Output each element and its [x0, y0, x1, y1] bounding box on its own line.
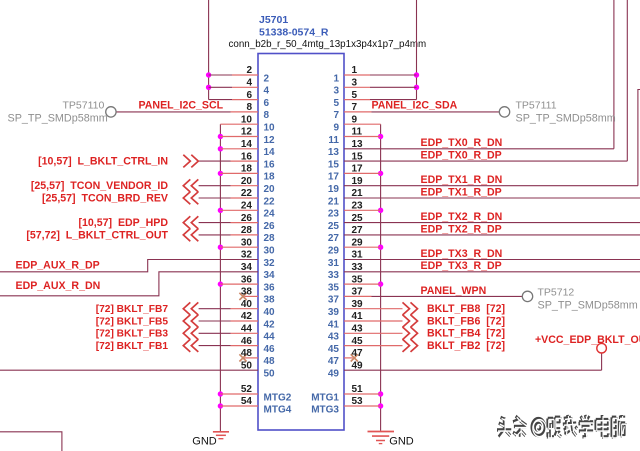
junction dot pin 11 on right GND bus [378, 134, 383, 139]
svg-text:43: 43 [352, 324, 364, 335]
svg-text:TP57110: TP57110 [63, 100, 105, 112]
pin 47 right stub and numbers [344, 357, 353, 359]
svg-text:49: 49 [352, 360, 364, 371]
svg-text:30: 30 [241, 237, 253, 248]
svg-text:MTG1: MTG1 [311, 392, 339, 403]
svg-text:34: 34 [264, 270, 276, 281]
svg-text:EDP_AUX_R_DP: EDP_AUX_R_DP [16, 259, 100, 271]
svg-text:25: 25 [328, 221, 340, 232]
svg-text:[57,72] L_BKLT_CTRL_OUT: [57,72] L_BKLT_CTRL_OUT [26, 229, 168, 241]
junction dot pin 53 on right GND bus [378, 403, 383, 408]
svg-text:47: 47 [352, 348, 364, 359]
pin 50 left stub and numbers [0, 369, 258, 371]
svg-text:PANEL_I2C_SDA: PANEL_I2C_SDA [372, 100, 458, 112]
pin 42 left stub and numbers [199, 320, 231, 322]
svg-text:19: 19 [352, 176, 364, 187]
svg-text:4: 4 [264, 86, 270, 97]
svg-text:[25,57] TCON_BRD_REV: [25,57] TCON_BRD_REV [42, 192, 168, 204]
pin 39 right stub and numbers [344, 308, 403, 310]
pin 4 left stub and numbers [209, 86, 232, 88]
svg-text:SP_TP_SMDp58mm: SP_TP_SMDp58mm [516, 113, 616, 125]
pin 52 left stub and numbers [220, 393, 258, 395]
junction dot pin 30 on left GND bus [218, 245, 223, 250]
pin 41 right stub and numbers [344, 320, 403, 322]
svg-text:3: 3 [333, 86, 339, 97]
svg-text:40: 40 [264, 307, 276, 318]
svg-text:6: 6 [246, 90, 252, 101]
off-page arrow into pin 16 [183, 155, 190, 168]
pin 19 right stub and numbers [344, 185, 638, 187]
wire EDP_TX1_R_DN vertical and exit right [638, 90, 640, 186]
svg-text:27: 27 [352, 225, 364, 236]
svg-text:17: 17 [352, 164, 364, 175]
svg-text:1: 1 [333, 73, 339, 84]
off-page arrow out of pin 39 [403, 302, 410, 315]
svg-text:24: 24 [241, 201, 253, 212]
svg-text:42: 42 [264, 319, 276, 330]
junction dot pin 2 net [206, 72, 211, 77]
svg-text:29: 29 [352, 237, 364, 248]
svg-text:9: 9 [333, 123, 339, 134]
junction dot pin 29 on right GND bus [378, 245, 383, 250]
svg-text:PANEL_WPN: PANEL_WPN [421, 285, 487, 297]
pin 28 left stub and numbers [199, 234, 231, 236]
svg-text:PANEL_I2C_SCL: PANEL_I2C_SCL [139, 100, 224, 112]
svg-text:GND: GND [389, 435, 414, 447]
svg-text:BKLT_FB4 [72]: BKLT_FB4 [72] [427, 328, 505, 340]
svg-text:30: 30 [264, 246, 276, 257]
svg-text:17: 17 [328, 172, 340, 183]
svg-text:43: 43 [328, 332, 340, 343]
pin 38 left stub and numbers [245, 295, 259, 297]
pin 17 right stub and numbers [344, 172, 381, 174]
svg-text:48: 48 [264, 356, 276, 367]
test point TP57110 circle [106, 107, 116, 117]
svg-text:32: 32 [241, 250, 253, 261]
svg-text:EDP_TX0_R_DP: EDP_TX0_R_DP [421, 150, 502, 162]
svg-text:10: 10 [264, 123, 276, 134]
junction dot pin 54 on left GND bus [218, 403, 223, 408]
off-page arrow out of pin 43 [403, 327, 410, 340]
svg-text:16: 16 [241, 151, 253, 162]
pin 40 left stub and numbers [199, 308, 231, 310]
pin 43 right stub and numbers [344, 332, 403, 334]
pin 49 right stub and numbers [344, 369, 602, 371]
svg-text:EDP_TX2_R_DP: EDP_TX2_R_DP [421, 223, 502, 235]
test point TP57111 circle [499, 107, 509, 117]
pin 24 left stub and numbers [220, 209, 258, 211]
pin 36 left stub and numbers [220, 283, 258, 285]
svg-text:51338-0574_R: 51338-0574_R [259, 27, 329, 39]
svg-text:38: 38 [264, 295, 276, 306]
svg-text:2: 2 [246, 65, 252, 76]
off-page arrow out of pin 46 [183, 339, 190, 352]
off-page arrow out of pin 26 [183, 216, 190, 229]
left GND bus wire [219, 124, 221, 431]
pin 44 left stub and numbers [199, 332, 231, 334]
pin 48 left stub and numbers [245, 357, 259, 359]
wire pin 49 to +VCC_EDP_BKLT_OUT [601, 353, 603, 370]
svg-text:38: 38 [241, 287, 253, 298]
svg-text:24: 24 [264, 209, 276, 220]
svg-text:12: 12 [241, 127, 253, 138]
svg-text:52: 52 [241, 384, 253, 395]
pin 8 left stub and numbers [116, 111, 230, 113]
pin 46 left stub and numbers [199, 345, 231, 347]
pin 7 right stub and numbers [344, 111, 372, 113]
svg-text:3: 3 [352, 78, 358, 89]
svg-text:41: 41 [352, 311, 364, 322]
svg-text:53: 53 [352, 396, 364, 407]
junction dot pin 24 on left GND bus [218, 208, 223, 213]
svg-text:conn_b2b_r_50_4mtg_13p1x3p4x1p: conn_b2b_r_50_4mtg_13p1x3p4x1p7_p4mm [229, 39, 427, 50]
svg-text:11: 11 [328, 135, 339, 146]
ground symbol left [213, 431, 229, 433]
svg-text:J5701: J5701 [259, 14, 288, 26]
svg-text:[72] BKLT_FB5: [72] BKLT_FB5 [96, 316, 169, 327]
svg-text:12: 12 [264, 135, 276, 146]
svg-text:28: 28 [264, 233, 276, 244]
pin 32 left stub and numbers [0, 260, 258, 272]
test point TP5712 circle [522, 291, 532, 301]
svg-text:MTG4: MTG4 [264, 404, 292, 415]
svg-text:[10,57] L_BKLT_CTRL_IN: [10,57] L_BKLT_CTRL_IN [38, 156, 168, 168]
svg-text:8: 8 [264, 110, 270, 121]
svg-text:TP57111: TP57111 [516, 100, 557, 112]
pin 20 left stub and numbers [199, 185, 231, 187]
svg-text:37: 37 [328, 295, 340, 306]
pin 29 right stub and numbers [344, 246, 381, 248]
svg-text:27: 27 [328, 233, 340, 244]
svg-text:EDP_TX0_R_DN: EDP_TX0_R_DN [421, 137, 503, 149]
junction dot pin 23 on right GND bus [378, 208, 383, 213]
svg-text:1: 1 [352, 65, 358, 76]
svg-text:9: 9 [352, 114, 358, 125]
svg-text:50: 50 [241, 360, 253, 371]
junction dot pin 17 on right GND bus [378, 171, 383, 176]
svg-text:EDP_TX3_R_DN: EDP_TX3_R_DN [421, 248, 503, 260]
svg-text:SP_TP_SMDp58mm: SP_TP_SMDp58mm [8, 113, 108, 125]
wire net pins 1-3-5 vertical to top edge [416, 0, 418, 100]
svg-text:33: 33 [352, 262, 364, 273]
junction dot pin 12 on left GND bus [218, 134, 223, 139]
svg-text:EDP_TX1_R_DP: EDP_TX1_R_DP [421, 186, 502, 198]
svg-text:34: 34 [241, 262, 253, 273]
svg-text:39: 39 [328, 307, 340, 318]
svg-text:44: 44 [241, 324, 253, 335]
pin 5 right stub and numbers [344, 99, 370, 101]
svg-text:2: 2 [264, 73, 270, 84]
pin 12 left stub and numbers [220, 136, 258, 138]
svg-text:18: 18 [264, 172, 276, 183]
pin 30 left stub and numbers [220, 246, 258, 248]
watermark 头条 @跟我学电脑 [497, 415, 625, 437]
off-page arrow out of pin 40 [183, 302, 190, 315]
svg-text:50: 50 [264, 369, 276, 380]
off-page arrow out of pin 22 [183, 192, 190, 205]
svg-text:MTG3: MTG3 [311, 404, 339, 415]
svg-text:54: 54 [241, 396, 253, 407]
svg-text:7: 7 [333, 110, 339, 121]
pin 2 left stub and numbers [209, 74, 232, 76]
svg-text:[72] BKLT_FB1: [72] BKLT_FB1 [96, 341, 169, 352]
svg-text:EDP_AUX_R_DN: EDP_AUX_R_DN [16, 280, 101, 292]
off-page arrow out of pin 20 [183, 179, 190, 192]
svg-text:29: 29 [328, 246, 340, 257]
svg-text:36: 36 [241, 274, 253, 285]
wire EDP_TX0_R_DP vertical to top edge [626, 0, 628, 161]
svg-text:25: 25 [352, 213, 364, 224]
svg-text:13: 13 [352, 139, 364, 150]
svg-text:11: 11 [352, 127, 363, 138]
junction dot pin 52 on left GND bus [218, 391, 223, 396]
svg-text:42: 42 [241, 311, 253, 322]
svg-text:BKLT_FB8 [72]: BKLT_FB8 [72] [427, 303, 505, 315]
svg-text:37: 37 [352, 287, 364, 298]
off-page arrow out of pin 42 [183, 315, 190, 328]
pin 45 right stub and numbers [344, 345, 403, 347]
pin 37 right stub and numbers [344, 295, 372, 297]
svg-text:+VCC_EDP_BKLT_OUT: +VCC_EDP_BKLT_OUT [535, 334, 640, 346]
svg-text:14: 14 [264, 147, 276, 158]
svg-text:45: 45 [352, 336, 364, 347]
pin 14 left stub and numbers [220, 148, 258, 150]
svg-text:39: 39 [352, 299, 364, 310]
svg-text:14: 14 [241, 139, 253, 150]
off-page arrow out of pin 28 [183, 229, 190, 242]
svg-text:35: 35 [352, 274, 364, 285]
svg-text:EDP_TX1_R_DN: EDP_TX1_R_DN [421, 174, 503, 186]
svg-text:5: 5 [333, 98, 339, 109]
svg-text:EDP_TX2_R_DN: EDP_TX2_R_DN [421, 211, 503, 223]
pin 35 right stub and numbers [344, 283, 381, 285]
svg-text:31: 31 [352, 250, 364, 261]
pin 54 left stub and numbers [220, 405, 258, 407]
pin 13 right stub and numbers [344, 148, 614, 150]
svg-text:15: 15 [352, 151, 364, 162]
svg-text:10: 10 [241, 114, 253, 125]
junction dot pin 14 on left GND bus [218, 146, 223, 151]
svg-text:36: 36 [264, 282, 276, 293]
svg-text:GND: GND [192, 435, 217, 447]
svg-text:21: 21 [352, 188, 364, 199]
svg-text:16: 16 [264, 159, 276, 170]
svg-text:SP_TP_SMDp58mm: SP_TP_SMDp58mm [538, 299, 638, 311]
svg-text:45: 45 [328, 344, 340, 355]
svg-text:19: 19 [328, 184, 340, 195]
svg-text:26: 26 [241, 213, 253, 224]
svg-text:[72] BKLT_FB3: [72] BKLT_FB3 [96, 329, 169, 340]
wire net pins 2-4-6 vertical to top edge [208, 0, 210, 100]
pin 15 right stub and numbers [344, 160, 627, 162]
svg-text:BKLT_FB2 [72]: BKLT_FB2 [72] [427, 340, 505, 352]
junction dot pin 3 net [414, 85, 419, 90]
off-page arrow out of pin 45 [403, 339, 410, 352]
svg-text:MTG2: MTG2 [264, 392, 292, 403]
pin 25 right stub and numbers [344, 222, 640, 224]
svg-text:23: 23 [328, 209, 340, 220]
svg-text:[10,57] EDP_HPD: [10,57] EDP_HPD [79, 217, 169, 229]
off-page arrow out of pin 44 [183, 327, 190, 340]
svg-text:46: 46 [264, 344, 276, 355]
svg-text:28: 28 [241, 225, 253, 236]
svg-text:TP5712: TP5712 [538, 286, 575, 298]
pin 10 left stub and numbers [220, 123, 258, 125]
svg-text:46: 46 [241, 336, 253, 347]
pin 22 left stub and numbers [199, 197, 231, 199]
junction dot pin 35 on right GND bus [378, 281, 383, 286]
svg-text:48: 48 [241, 348, 253, 359]
svg-text:EDP_TX3_R_DP: EDP_TX3_R_DP [421, 260, 502, 272]
pin 23 right stub and numbers [344, 209, 381, 211]
svg-text:5: 5 [352, 90, 358, 101]
svg-text:8: 8 [246, 102, 252, 113]
svg-text:47: 47 [328, 356, 340, 367]
pin 31 right stub and numbers [344, 259, 640, 261]
junction dot pin 1 net [414, 72, 419, 77]
pin 16 left stub and numbers [199, 160, 231, 162]
svg-text:[25,57] TCON_VENDOR_ID: [25,57] TCON_VENDOR_ID [31, 180, 169, 192]
right GND bus wire [380, 124, 382, 431]
ground symbol right [368, 431, 395, 433]
pin 6 left stub and numbers [209, 99, 232, 101]
svg-text:33: 33 [328, 270, 340, 281]
off-page arrow out of pin 41 [403, 315, 410, 328]
junction dot pin 36 on left GND bus [218, 281, 223, 286]
svg-text:35: 35 [328, 282, 340, 293]
pin 11 right stub and numbers [344, 136, 381, 138]
pin 33 right stub and numbers [344, 271, 640, 273]
junction dot pin 51 on right GND bus [378, 391, 383, 396]
svg-text:22: 22 [264, 196, 276, 207]
pin 53 right stub and numbers [344, 405, 381, 407]
svg-text:32: 32 [264, 258, 276, 269]
wire EDP_TX0_R_DN vertical to top edge [613, 0, 615, 149]
svg-text:21: 21 [328, 196, 340, 207]
pin 34 left stub and numbers [0, 272, 258, 296]
pin 1 right stub and numbers [344, 74, 370, 76]
svg-text:20: 20 [264, 184, 276, 195]
svg-text:6: 6 [264, 98, 270, 109]
svg-text:13: 13 [328, 147, 340, 158]
svg-text:22: 22 [241, 188, 253, 199]
svg-text:44: 44 [264, 332, 276, 343]
pin 3 right stub and numbers [344, 86, 370, 88]
svg-text:4: 4 [246, 78, 252, 89]
pin 27 right stub and numbers [344, 234, 640, 236]
svg-text:BKLT_FB6 [72]: BKLT_FB6 [72] [427, 315, 505, 327]
svg-text:49: 49 [328, 369, 340, 380]
junction dot pin 18 on left GND bus [218, 171, 223, 176]
pin 26 left stub and numbers [199, 222, 231, 224]
pin 9 right stub and numbers [344, 123, 381, 125]
svg-text:41: 41 [328, 319, 340, 330]
svg-text:31: 31 [328, 258, 340, 269]
connector J5701 body outline [258, 54, 344, 431]
power symbol +VCC_EDP_BKLT_OUT circle [597, 343, 607, 353]
junction dot pin 4 net [206, 85, 211, 90]
svg-text:40: 40 [241, 299, 253, 310]
pin 21 right stub and numbers [344, 197, 640, 199]
svg-text:26: 26 [264, 221, 276, 232]
svg-text:51: 51 [352, 384, 364, 395]
svg-text:23: 23 [352, 201, 364, 212]
pin 51 right stub and numbers [344, 393, 381, 395]
wire bottom-left corner [0, 432, 62, 451]
svg-text:15: 15 [328, 159, 340, 170]
svg-text:7: 7 [352, 102, 358, 113]
svg-text:[72] BKLT_FB7: [72] BKLT_FB7 [96, 304, 169, 315]
svg-text:18: 18 [241, 164, 253, 175]
svg-text:20: 20 [241, 176, 253, 187]
pin 18 left stub and numbers [220, 172, 258, 174]
